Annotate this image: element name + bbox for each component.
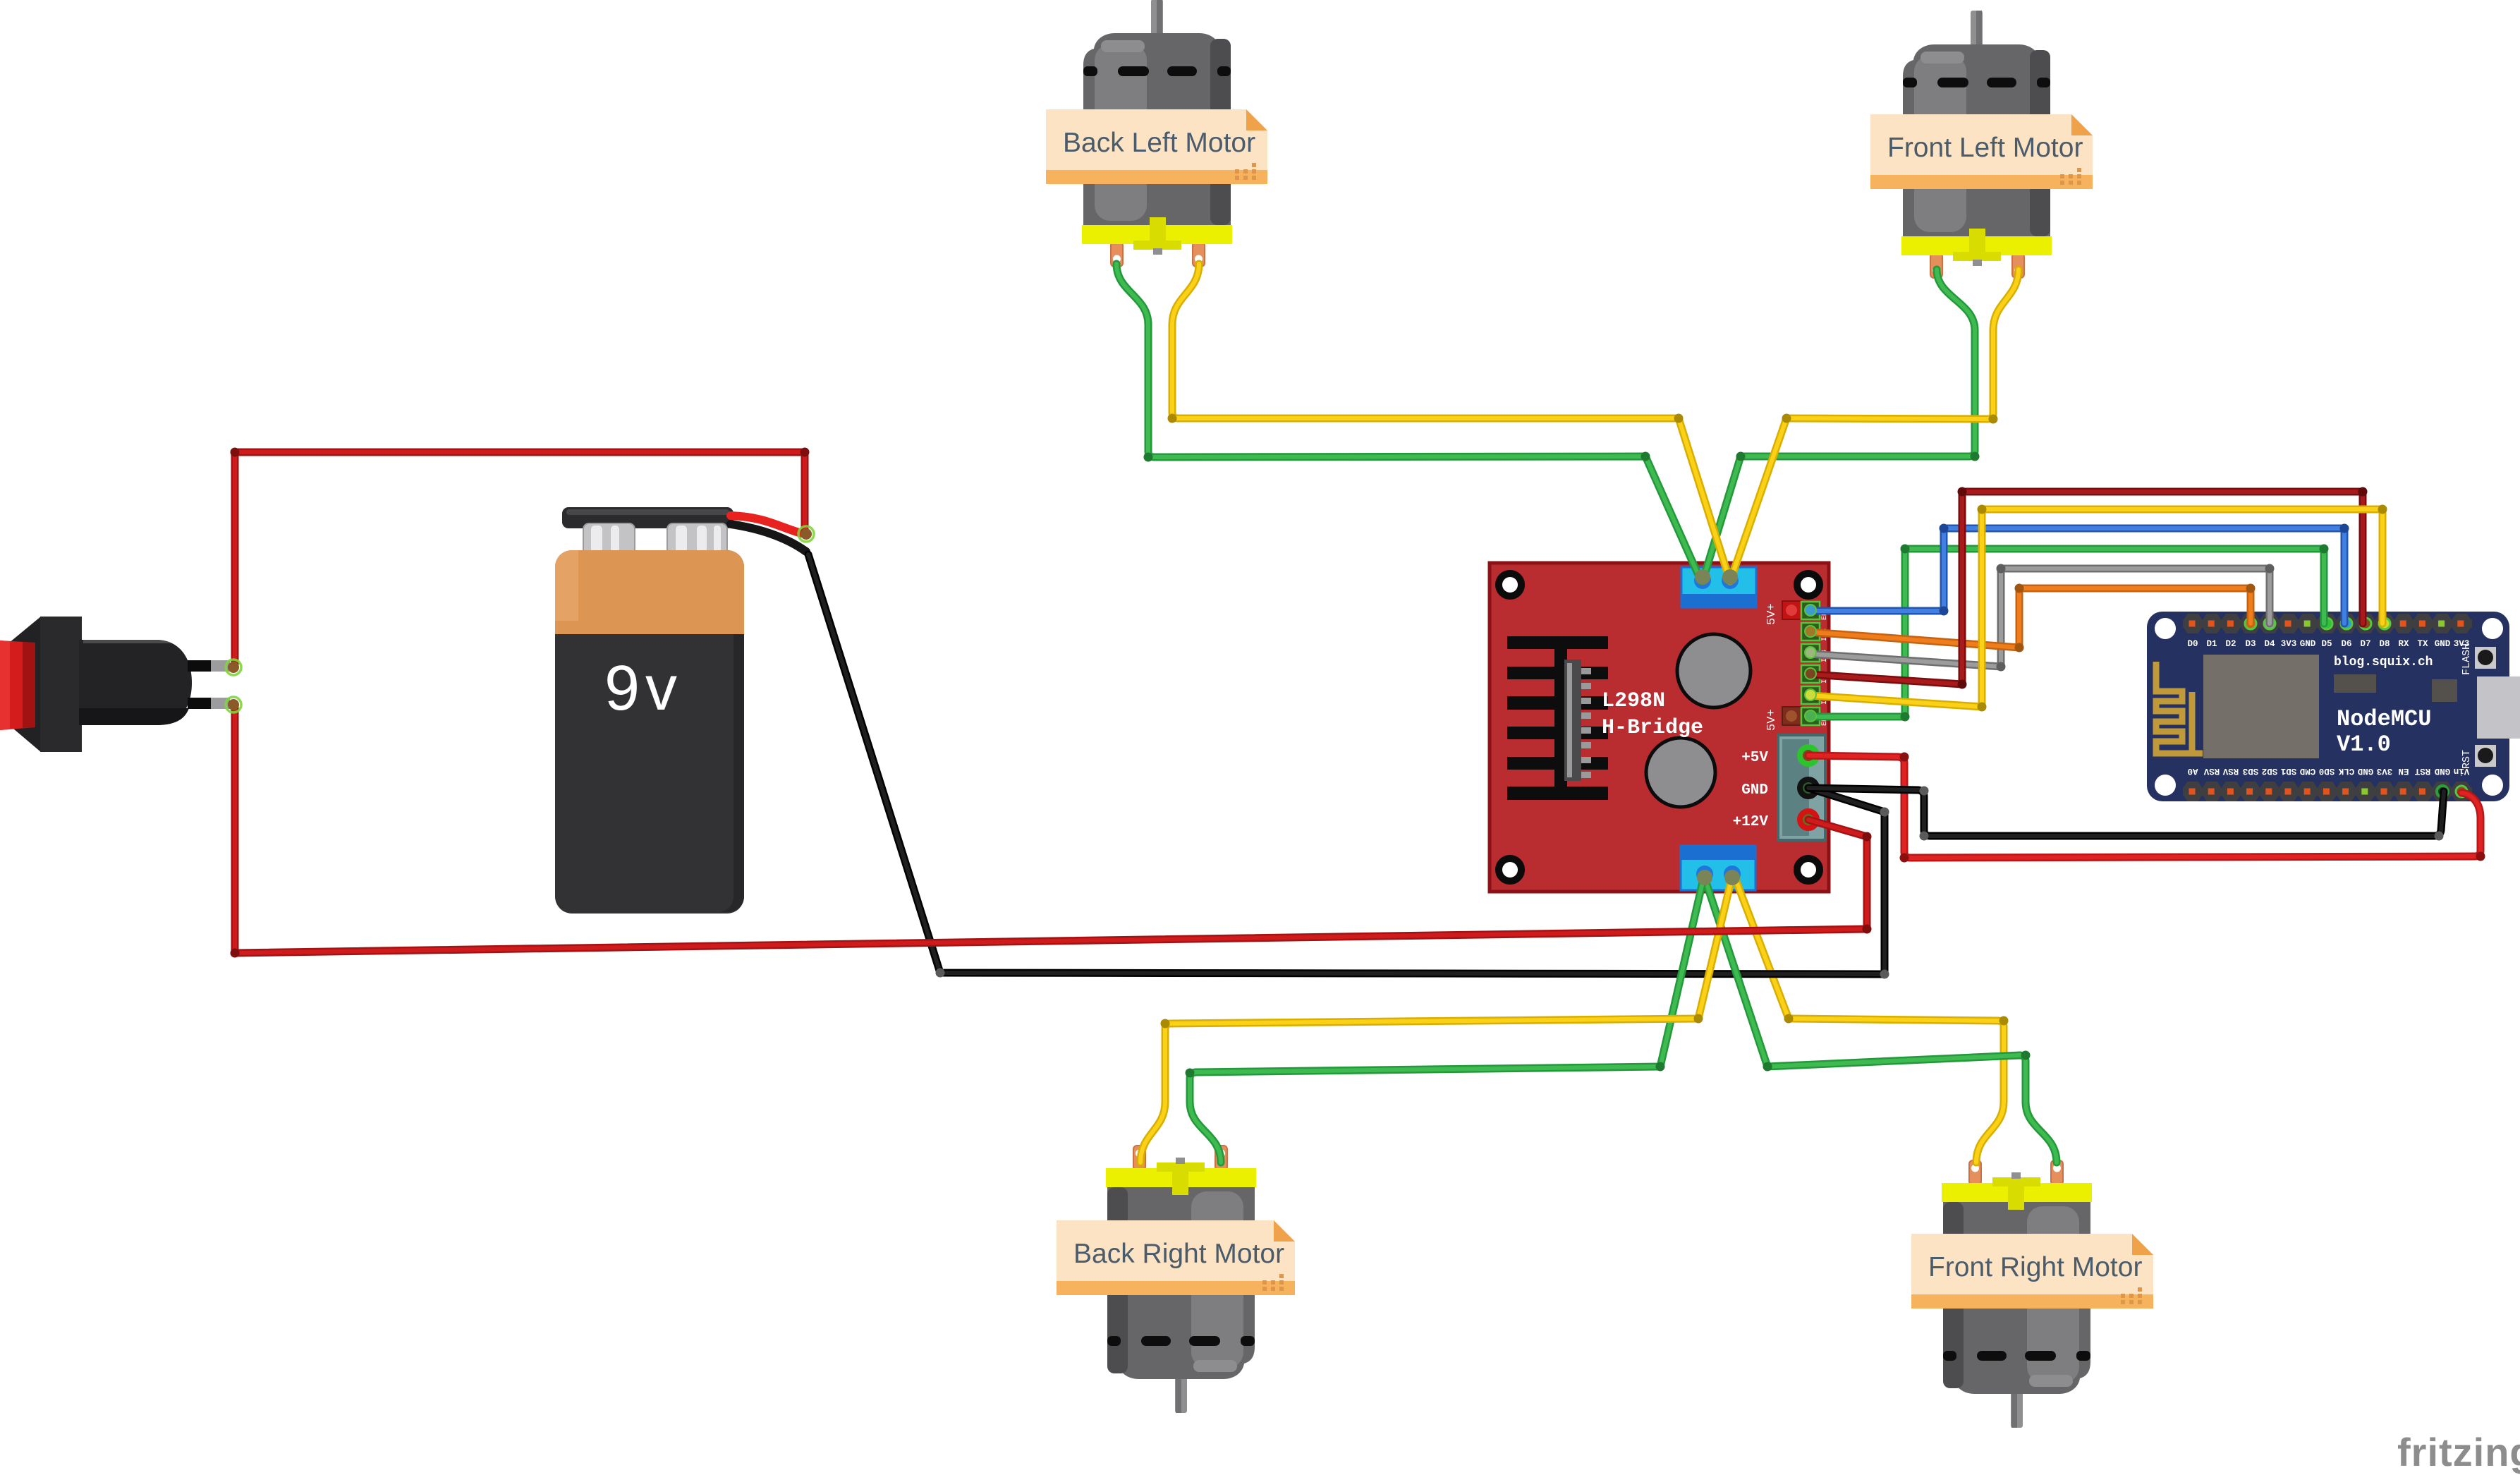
- wire orange L298N IN4 to NodeMCU D3: [1810, 584, 2256, 652]
- battery black lead: [731, 524, 806, 552]
- svg-text:3V3: 3V3: [2377, 766, 2393, 776]
- RST button: [2475, 745, 2496, 767]
- power block +5V GND +12V: [1778, 735, 1825, 840]
- svg-text:SD3: SD3: [2243, 766, 2259, 776]
- wire gray L298N IN3 to NodeMCU D4: [1810, 564, 2275, 672]
- svg-text:D2: D2: [2225, 639, 2236, 649]
- wire dark-red L298N IN2 to NodeMCU D7: [1810, 487, 2368, 689]
- USB connector: [2477, 676, 2520, 739]
- svg-text:D0: D0: [2187, 639, 2198, 649]
- svg-text:RST: RST: [2461, 750, 2473, 769]
- svg-text:L298N: L298N: [1602, 689, 1665, 713]
- svg-text:V1.0: V1.0: [2337, 732, 2391, 758]
- svg-text:Back Left Motor: Back Left Motor: [1063, 128, 1255, 158]
- mounting holes: [2155, 618, 2176, 639]
- svg-text:CLK: CLK: [2338, 766, 2354, 776]
- label note 'Back Left Motor': [1046, 109, 1267, 184]
- top pin header strip: [2183, 614, 2472, 633]
- svg-text:A0: A0: [2187, 766, 2198, 776]
- wire green M3 Back-Right to L298N OUT3: [1186, 876, 1705, 1163]
- wire green M4 Front-Right to L298N OUT3: [1704, 876, 2057, 1163]
- wire black L298N GND to NodeMCU GND: [1808, 787, 2444, 841]
- header pin tips: [1805, 605, 1816, 616]
- label note 'Back Right Motor': [1057, 1220, 1295, 1295]
- svg-text:RX: RX: [2398, 639, 2409, 649]
- header pins ENB..ENA: [1801, 602, 1820, 725]
- battery BT1 9v: [555, 507, 806, 913]
- label note 'Front Right Motor': [1911, 1234, 2153, 1309]
- svg-text:GND: GND: [2434, 766, 2450, 776]
- svg-text:+5V: +5V: [1741, 750, 1768, 766]
- wire blue L298N ENB to NodeMCU D6: [1810, 524, 2349, 624]
- wifi antenna: [2156, 662, 2203, 753]
- bottom pin header strip: [2183, 782, 2472, 801]
- svg-text:GND: GND: [2357, 766, 2373, 776]
- smd component: [2334, 674, 2376, 693]
- svg-text:SD2: SD2: [2262, 766, 2278, 776]
- svg-text:D5: D5: [2321, 639, 2332, 649]
- bottom pin pads + labels (rotated): [2189, 789, 2196, 795]
- svg-text:RSV: RSV: [2222, 766, 2239, 776]
- svg-text:TX: TX: [2417, 639, 2428, 649]
- svg-text:GND: GND: [1741, 782, 1768, 799]
- svg-text:SD1: SD1: [2281, 766, 2297, 776]
- label note 'Front Left Motor': [1870, 114, 2093, 189]
- wire green L298N ENA to NodeMCU D5: [1810, 545, 2329, 722]
- heatsink: [1507, 636, 1608, 800]
- wire yellow M2 Front-Left to L298N OUT2: [1730, 269, 2019, 581]
- svg-text:Front Right Motor: Front Right Motor: [1928, 1252, 2142, 1282]
- svg-text:EN: EN: [2398, 766, 2409, 776]
- svg-text:D7: D7: [2360, 639, 2370, 649]
- pushbutton S1: [0, 617, 230, 752]
- svg-text:H-Bridge: H-Bridge: [1602, 716, 1703, 740]
- mounting hole bottom-left: [1499, 858, 1521, 881]
- motor M1 Back Left: [1082, 0, 1232, 267]
- svg-text:RSV: RSV: [2203, 766, 2220, 776]
- svg-text:D8: D8: [2379, 639, 2390, 649]
- wire red S1 bottom to L298N +12V: [231, 705, 1872, 958]
- svg-text:3V3: 3V3: [2281, 639, 2297, 649]
- battery red lead: [731, 516, 801, 533]
- svg-text:Back Right Motor: Back Right Motor: [1073, 1239, 1284, 1269]
- ESP shield: [2203, 655, 2319, 758]
- svg-text:GND: GND: [2300, 639, 2316, 649]
- top pin pads + labels: [2189, 621, 2196, 627]
- 5V+ jumper bottom: [1782, 707, 1801, 725]
- svg-text:D1: D1: [2206, 639, 2217, 649]
- svg-text:RST: RST: [2414, 766, 2430, 776]
- wire yellow M1 Back-Left to L298N OUT2: [1168, 264, 1731, 581]
- motor M3 Back Right (rotated 180): [1106, 1146, 1256, 1413]
- wire black battery- to L298N GND: [808, 554, 1889, 979]
- svg-text:5V+: 5V+: [1765, 603, 1779, 625]
- wire green M1 Back-Left to L298N OUT1: [1116, 264, 1701, 581]
- svg-text:+12V: +12V: [1733, 814, 1769, 830]
- wire yellow L298N IN1 to NodeMCU D8: [1810, 505, 2387, 712]
- motor M2 Front Left: [1901, 11, 2052, 278]
- L298N H-Bridge module U1: [1490, 563, 1829, 892]
- connection endpoints: [226, 660, 241, 675]
- capacitor C2: [1646, 738, 1715, 807]
- svg-text:Front Left Motor: Front Left Motor: [1887, 133, 2083, 163]
- motor M4 Front Right (rotated 180): [1942, 1160, 2092, 1428]
- wire red L298N +5V to NodeMCU Vin: [1808, 753, 2485, 863]
- svg-text:D4: D4: [2264, 639, 2275, 649]
- mounting hole top-left: [1499, 573, 1521, 596]
- wire green M2 Front-Left to L298N OUT1: [1703, 269, 1980, 581]
- svg-text:5V+: 5V+: [1765, 709, 1779, 731]
- svg-text:SD0: SD0: [2319, 766, 2335, 776]
- svg-text:CMD: CMD: [2299, 766, 2315, 776]
- wire yellow M4 Front-Right to L298N OUT4: [1734, 876, 2009, 1163]
- NodeMCU V1.0 module U2: [2147, 612, 2520, 801]
- mounting hole bottom-right: [1797, 858, 1820, 881]
- wire red S1 top to battery +: [231, 448, 810, 668]
- wire yellow M3 Back-Right to L298N OUT4: [1140, 876, 1732, 1163]
- smd component: [2432, 679, 2457, 702]
- wire tips at OUT terminals: [1695, 569, 1710, 585]
- capacitor C1: [1677, 634, 1751, 708]
- mounting hole top-right: [1797, 573, 1820, 596]
- svg-text:blog.squix.ch: blog.squix.ch: [2334, 655, 2433, 669]
- IC L298 package: [1564, 660, 1581, 781]
- svg-text:D3: D3: [2245, 639, 2256, 649]
- FLASH button: [2475, 647, 2496, 669]
- terminal block OUT1/OUT2 (top): [1681, 567, 1756, 607]
- svg-text:fritzing: fritzing: [2397, 1430, 2520, 1474]
- 5V+ jumper top: [1782, 601, 1801, 619]
- svg-text:NodeMCU: NodeMCU: [2337, 706, 2431, 732]
- svg-text:FLASH: FLASH: [2461, 643, 2473, 675]
- svg-text:9v: 9v: [604, 653, 683, 724]
- svg-text:D6: D6: [2341, 639, 2351, 649]
- svg-text:GND: GND: [2435, 639, 2451, 649]
- terminal block OUT3/OUT4 (bottom): [1681, 846, 1755, 890]
